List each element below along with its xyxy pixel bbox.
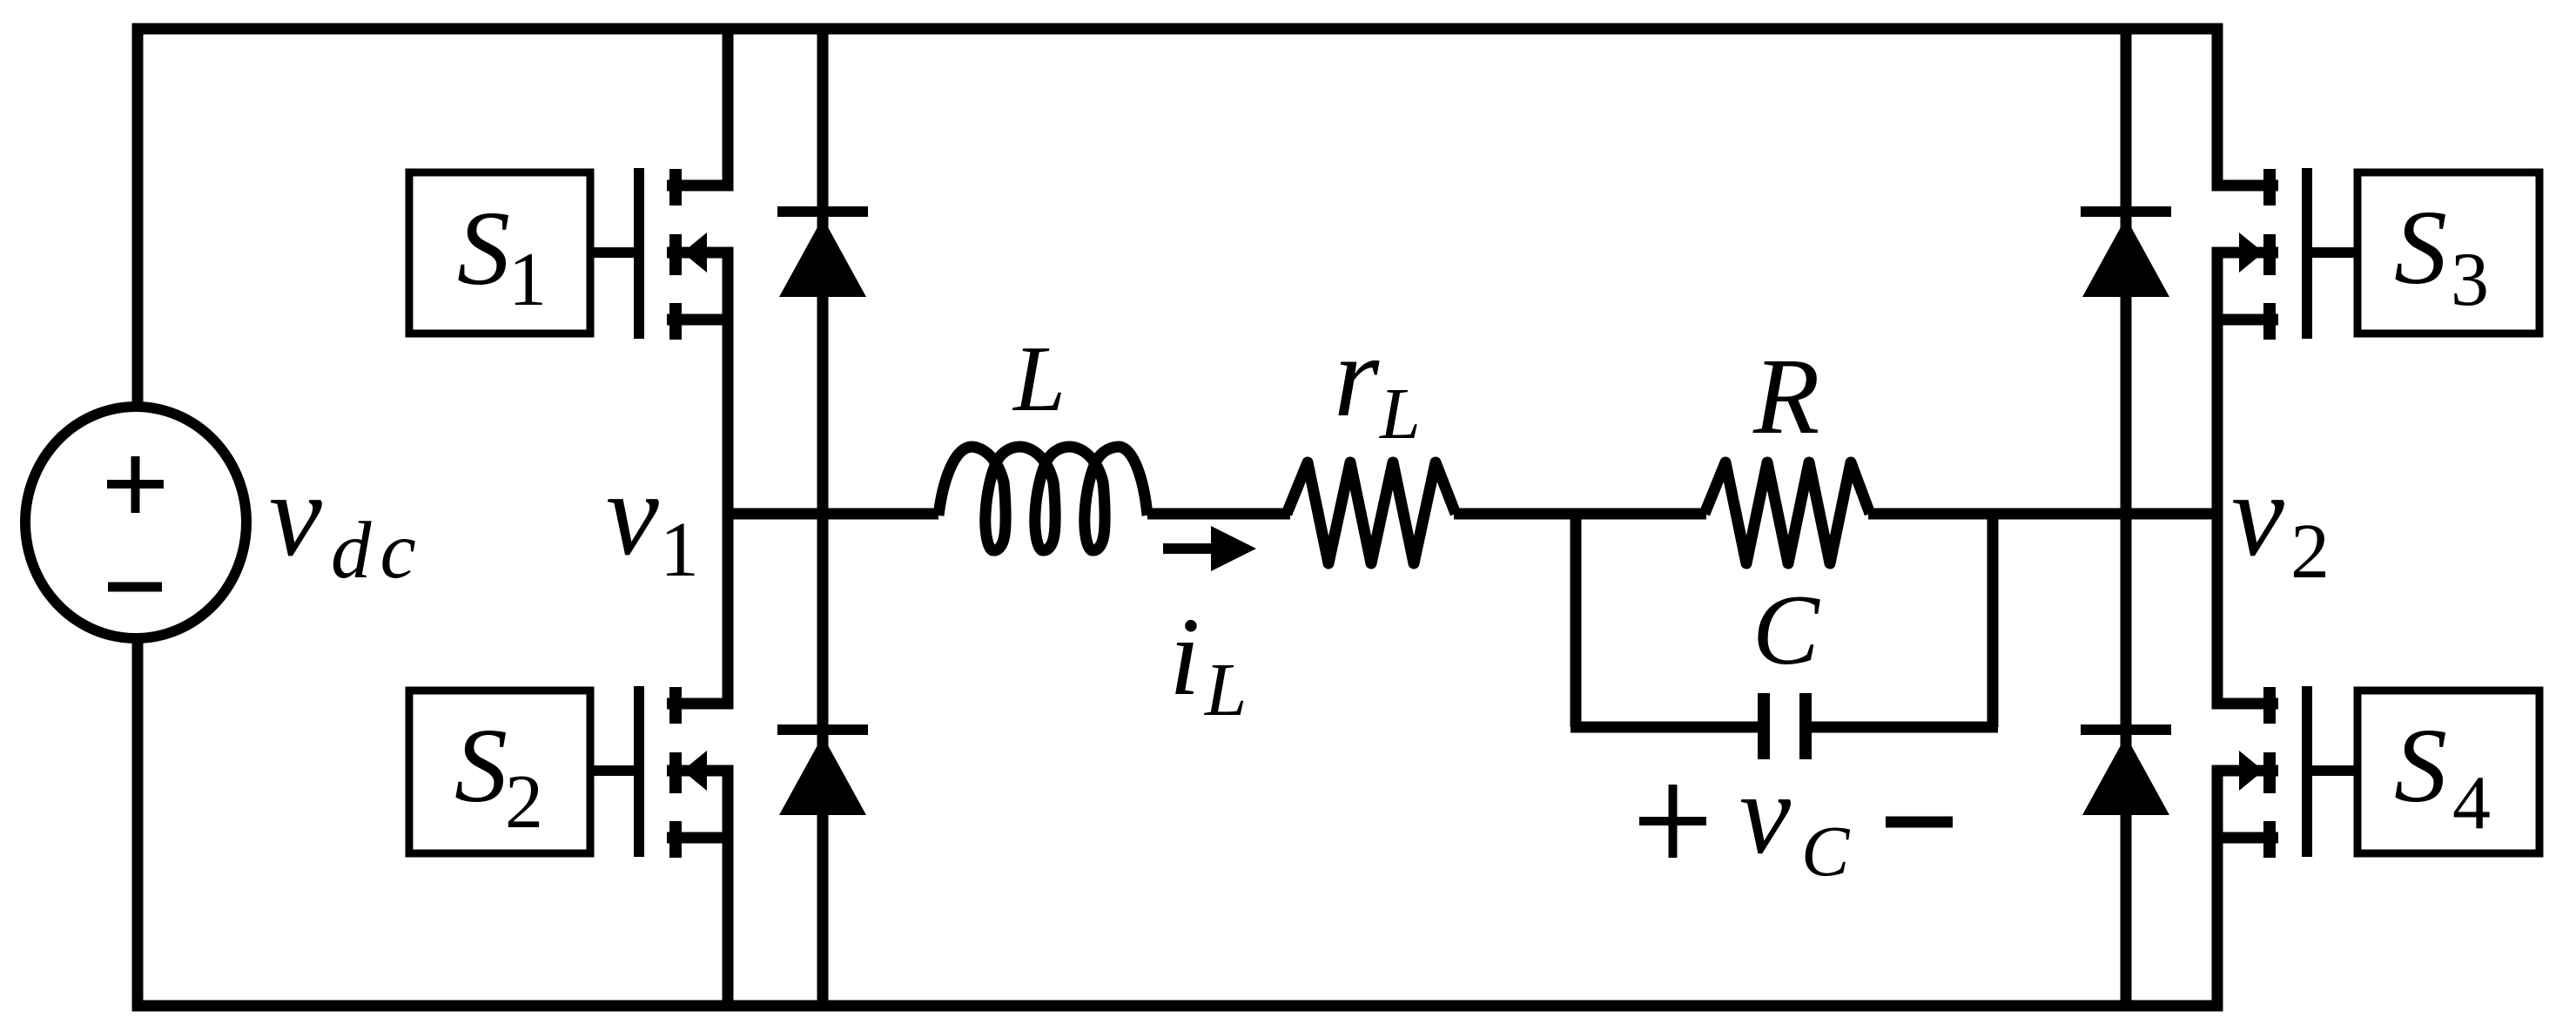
switch box S3 [2357,172,2539,334]
transistor S4 channel segments [2263,687,2276,858]
switch box S2 [409,691,590,853]
diode D1 (left leg upper): cathode bar [777,206,868,217]
svg-text:v: v [269,448,322,581]
transistor S4 gate lead [2312,765,2359,776]
wire left leg middle (S1 source to v1 to S2 drain) [667,320,728,704]
transistor S4 body arrow [2239,751,2263,791]
diode D4 (right leg lower): cathode bar [2081,724,2171,735]
svg-text:S: S [454,707,508,825]
diode D3 (right leg upper): cathode bar [2081,206,2171,217]
diode D2 (left leg lower): cathode bar [777,724,868,735]
svg-text:v: v [1739,749,1792,878]
transistor S1 body arrow [683,232,707,273]
diode D1 triangle [779,218,866,297]
resistor R zigzag [1705,462,1870,563]
resistor rL zigzag [1287,462,1456,563]
wire left leg bottom [723,838,734,1005]
svg-text:L: L [1379,374,1421,455]
switch box S4 [2357,691,2539,853]
svg-text:2: 2 [2290,509,2330,595]
transistor S3 gate lead [2312,247,2359,258]
wire RC left junction vertical [1570,509,1582,727]
wire C branch right horizontal [1812,722,1998,733]
transistor S2 mosfet: gate bar [634,686,644,857]
wire top loop: left vertical + top wire + right leg upper [138,29,2278,405]
label minus [1886,817,1953,828]
transistor S1 channel segments [669,169,682,340]
wire right leg middle (S3 source to v2 to S4 drain) [2217,320,2278,704]
wire R to v2 node through right RC junction [1868,509,2217,520]
svg-text:C: C [1801,811,1851,891]
diode D3 triangle [2082,218,2169,297]
transistor S1 mosfet: gate bar [634,168,644,339]
label + vC - : plus [1639,785,1706,858]
svg-text:1: 1 [660,507,699,593]
svg-text:3: 3 [2451,238,2489,322]
transistor S2 gate lead [587,765,634,776]
diode D2 triangle [779,736,866,815]
wire right leg S3 body+source stubs [2217,253,2278,320]
svg-text:R: R [1752,337,1819,457]
svg-text:L: L [1203,647,1247,731]
svg-text:1: 1 [508,238,547,322]
svg-text:dc: dc [331,506,425,596]
svg-text:4: 4 [2452,761,2491,846]
wire bottom loop: left vertical bottom + bottom wire + right leg lower [138,640,2278,1006]
wire v1 node to inductor [728,509,938,520]
transistor S2 channel segments [669,687,682,858]
wire right diode branch vertical [2121,29,2132,1005]
svg-text:S: S [2394,707,2447,825]
wire C branch left horizontal [1570,722,1758,733]
transistor S4 mosfet: gate bar [2302,686,2312,857]
transistor S1 gate lead [587,247,634,258]
svg-text:v: v [2231,448,2284,581]
capacitor C plates [1764,693,1806,759]
switch box S1 [409,172,590,334]
plus sign inside source [107,456,164,513]
transistor S3 mosfet: gate bar [2302,168,2312,339]
svg-text:S: S [457,190,510,307]
inductor L coil [938,447,1147,550]
svg-text:2: 2 [505,760,543,845]
transistor S2 body arrow [683,751,707,791]
svg-text:S: S [2394,189,2447,307]
wire left diode branch vertical [817,29,829,1005]
svg-text:r: r [1334,312,1380,441]
wire S4 body+source stubs [2217,771,2278,838]
transistor S3 body arrow [2239,232,2263,273]
diode D4 triangle [2082,736,2169,815]
current arrow iL [1163,543,1217,554]
svg-text:v: v [606,448,659,580]
svg-text:i: i [1169,595,1201,718]
wire RC right junction vertical [1987,509,1999,727]
voltage source vdc circle [25,407,246,638]
wire S1 body+source stubs [667,253,728,320]
minus sign inside source [108,583,162,592]
wire left leg upper drain [667,29,728,185]
wire rL to R through left RC junction [1454,509,1706,520]
wire S2 body+source stubs [667,771,728,838]
wire inductor to rL [1147,509,1290,520]
svg-text:C: C [1752,575,1820,685]
current arrow iL head [1211,526,1256,571]
svg-text:L: L [1012,327,1066,431]
transistor S3 channel segments [2263,169,2276,340]
